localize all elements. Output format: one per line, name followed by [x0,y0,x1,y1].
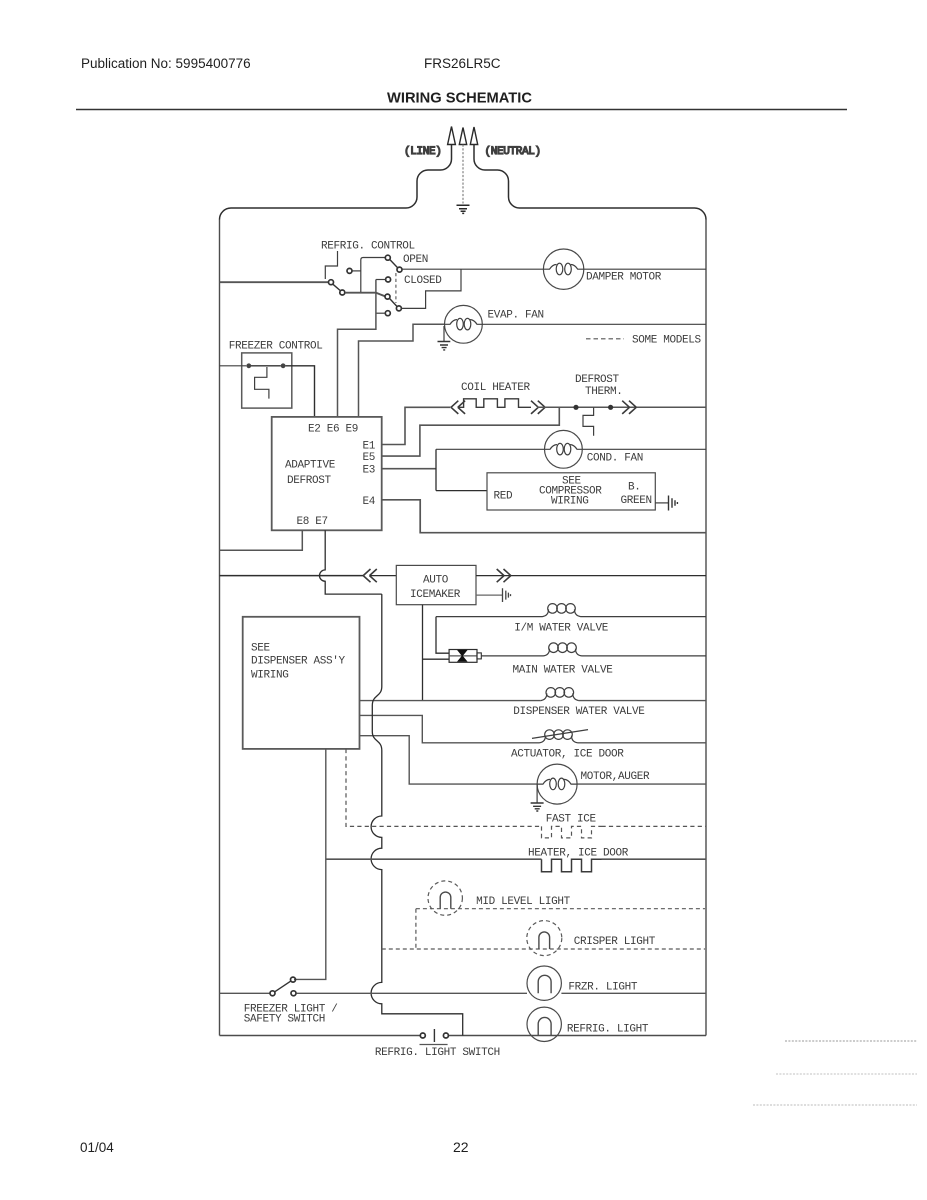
diode elements [458,650,467,661]
svg-text:REFRIG. LIGHT SWITCH: REFRIG. LIGHT SWITCH [375,1047,500,1059]
svg-text:Publication No: 5995400776: Publication No: 5995400776 [81,56,251,71]
connector chevrons left of coil heater [451,401,465,414]
svg-text:THERM.: THERM. [585,386,623,398]
defrost thermostat contact right [608,405,613,410]
safety switch upper contact [291,977,296,982]
wire dispenser box lamp feed down [294,749,326,980]
wire cond fan line [436,448,706,450]
svg-text:(NEUTRAL): (NEUTRAL) [485,146,541,158]
damper motor windings [543,265,584,270]
legend dashed sample SOME MODELS [586,338,624,340]
wire icemaker box down to water valve feed [422,605,424,701]
svg-text:(LINE): (LINE) [404,146,442,158]
wire main water valve line [481,655,706,657]
wire ground prong lead [462,145,464,204]
contact C [347,268,352,273]
frzr light filament [538,975,551,993]
svg-text:SEE: SEE [251,642,271,654]
evap fan motor circle [445,305,483,343]
wire E4 to right rail [382,500,706,533]
heater ice door element [542,859,602,872]
bottom edge left of refrig light switch [220,1035,421,1037]
wire B to CLOSED contact G [345,293,385,297]
freezer control contact left [246,363,251,368]
refrig light switch plunger [433,1029,435,1042]
diode pack midline [449,655,477,657]
main water valve coil [544,649,582,656]
wire dispenser box fast ice dashed feed [346,749,542,827]
ground symbol at evap fan [438,342,451,350]
left rail of schematic box [219,220,221,1036]
svg-text:E4: E4 [363,496,376,508]
ground symbol at motor auger [531,803,544,811]
svg-text:DISPENSER ASS'Y: DISPENSER ASS'Y [251,656,346,668]
refrig light switch base [420,1044,448,1046]
svg-text:FREEZER CONTROL: FREEZER CONTROL [229,341,323,353]
svg-text:REFRIG. LIGHT: REFRIG. LIGHT [567,1024,649,1036]
svg-text:01/04: 01/04 [80,1140,114,1155]
crisper light filament [539,932,550,949]
wire coil heater to defrost thermostat [537,406,706,408]
svg-text:FAST ICE: FAST ICE [546,814,597,826]
wire compressor GREEN to ground [655,502,668,504]
wire feed from left rail to refrig control common [220,281,329,283]
svg-text:E8 E7: E8 E7 [297,516,328,528]
svg-text:ICEMAKER: ICEMAKER [410,589,461,601]
wire icemaker box to right rail [476,575,706,577]
svg-text:SOME MODELS: SOME MODELS [632,335,702,347]
adaptive defrost control box [272,417,382,530]
svg-text:COIL HEATER: COIL HEATER [461,382,531,394]
svg-text:MAIN WATER VALVE: MAIN WATER VALVE [513,664,614,676]
refrid light filament [538,1017,551,1035]
right rail of schematic box [705,220,707,1036]
refrid light circle [527,1007,561,1041]
defrost thermostat contact left [573,405,578,410]
dispenser water valve coil [541,693,579,700]
frzr light circle [527,966,561,1000]
svg-text:MOTOR,AUGER: MOTOR,AUGER [581,771,651,783]
I/M water valve coil [543,609,581,616]
svg-text:HEATER, ICE DOOR: HEATER, ICE DOOR [528,848,629,860]
svg-text:DEFROST: DEFROST [575,374,620,386]
wire heater ice door line [326,858,706,860]
connector chevrons right of coil heater [531,401,545,414]
motor auger circle [537,764,577,804]
mid level light filament [440,892,451,909]
freezer control sensing zigzag [255,367,269,399]
wire frzr light line from left rail [220,992,271,994]
contact D OPEN [385,255,390,260]
svg-text:E1: E1 [363,441,376,453]
svg-text:FRS26LR5C: FRS26LR5C [424,56,501,71]
header rule [76,109,847,111]
dispenser assy note box [243,617,360,749]
svg-text:COND. FAN: COND. FAN [587,453,643,465]
svg-text:RED: RED [494,491,514,503]
svg-text:OPEN: OPEN [403,254,428,266]
svg-text:WIRING: WIRING [551,496,589,508]
connector chevrons right of icemaker box [497,569,511,582]
wire bus vertical to OPEN branch [361,258,386,293]
actuator ice door coil [540,736,578,743]
switch blade D to E [390,260,398,268]
freezer control blade [251,365,281,367]
wire F-H node down to E6 terminal [338,280,376,417]
svg-text:SAFETY SWITCH: SAFETY SWITCH [244,1014,325,1026]
svg-text:WIRING SCHEMATIC: WIRING SCHEMATIC [387,91,532,107]
wire left rail to freezer control [220,365,247,367]
svg-text:E5: E5 [363,452,376,464]
wire compressor RED feed [436,490,487,492]
wire I/M water valve line [436,616,706,618]
wire E3 to junction [382,468,436,470]
svg-text:CRISPER LIGHT: CRISPER LIGHT [574,936,656,948]
freezer control contact right [281,363,286,368]
svg-text:DEFROST: DEFROST [287,475,332,487]
contact A refrig control common [329,280,334,285]
svg-text:B.: B. [628,482,641,494]
safety switch line contact [291,991,296,996]
wire fast ice dashed to right rail [602,825,707,827]
wire LINE prong to left rail [220,145,452,220]
wire actuator feed from dispenser box [360,715,707,742]
wire evap fan line from E9 [359,324,445,417]
diode pack body [449,650,477,663]
contact B [340,290,345,295]
auto icemaker box [396,565,476,604]
fast ice heater element dashed [542,826,602,838]
svg-text:EVAP. FAN: EVAP. FAN [488,310,544,322]
wire F to H loop [376,279,386,281]
evap fan windings [445,320,483,325]
ground symbol at compressor sideways [669,496,678,511]
wire freezer control to E2 terminal [286,366,315,417]
switch blade A to B [333,284,340,290]
scan artifact line 2 [776,1073,917,1075]
svg-text:DISPENSER WATER VALVE: DISPENSER WATER VALVE [513,706,645,718]
wire E7 run down through valve lines with hops [371,594,463,1035]
ground lead at motor auger [536,784,538,802]
wire frzr light line to lamp and rail [297,992,707,994]
wire E1 to coil heater [382,407,451,444]
actuator stroke line [532,730,588,739]
wire icemaker line from left rail [220,575,364,577]
wire E7 down with hop over icemaker line [319,530,381,594]
plug prong ground arrow [459,128,466,145]
wire I staircase up to damper line [402,269,462,308]
svg-text:FRZR. LIGHT: FRZR. LIGHT [568,982,638,994]
svg-text:GREEN: GREEN [621,495,652,507]
contact F CLOSED [386,277,391,282]
wire motor auger feed from dispenser box [360,736,707,784]
contact E [397,267,402,272]
cond fan windings [545,445,583,450]
coil heater element [458,399,531,408]
contact G [385,294,390,299]
svg-text:ACTUATOR, ICE DOOR: ACTUATOR, ICE DOOR [511,748,624,760]
motor auger windings [537,779,577,784]
safety switch common contact [270,991,275,996]
refrig control sensing bracket [325,251,337,279]
switch blade G to I [390,299,397,307]
damper motor M1 circle [543,249,583,289]
contact C stub wire [352,270,361,272]
wire dispenser water valve line [360,700,707,702]
cond fan motor circle [545,430,583,468]
refrig light switch right contact [443,1033,448,1038]
svg-text:DAMPER MOTOR: DAMPER MOTOR [586,272,662,284]
svg-text:E2 E6 E9: E2 E6 E9 [308,423,358,435]
mechanical link dashed between poles [395,273,397,303]
svg-text:CLOSED: CLOSED [404,275,442,287]
svg-text:AUTO: AUTO [423,574,449,586]
crisper light circle dashed [527,921,562,956]
plug prong LINE arrow [448,127,456,145]
freezer control box [242,353,292,408]
wire H stub to F-H node [376,312,385,314]
wire diode lower feed [423,658,450,660]
ground symbol below plug [457,205,470,213]
scan artifact line 3 [753,1104,917,1106]
plug prong NEUTRAL arrow [470,127,477,145]
svg-text:E3: E3 [363,464,376,476]
contact I [396,306,401,311]
scan artifact line 1 [785,1040,917,1042]
wire evap fan to right rail [482,323,706,325]
safety switch blade [275,981,291,992]
wire crisper light dashed line [382,948,705,950]
wire mid level light dashed line [416,909,705,949]
wire chevrons to icemaker box [370,575,397,577]
svg-text:WIRING: WIRING [251,670,289,682]
wire E8 to left rail [220,530,303,550]
connector chevrons left of icemaker [363,569,377,582]
contact H [385,311,390,316]
refrig light switch left contact [420,1033,425,1038]
connector chevron right of defrost thermostat [622,401,636,414]
svg-text:MID LEVEL LIGHT: MID LEVEL LIGHT [476,896,571,908]
wire damper motor line [402,268,706,270]
wire NEUTRAL prong to right rail [474,145,706,220]
wire icemaker ground stub [476,594,502,596]
wire junction vertical cond fan to compressor feed [435,449,437,490]
svg-text:REFRIG. CONTROL: REFRIG. CONTROL [321,241,415,253]
defrost thermostat sensing bracket [583,407,594,436]
mid level light circle dashed [428,881,462,915]
svg-text:I/M WATER VALVE: I/M WATER VALVE [514,622,609,634]
compressor note box [487,473,655,510]
wire E5 to coil heater line [382,408,560,456]
svg-text:22: 22 [453,1139,469,1155]
wire I/M valve feed from diode [436,617,449,654]
svg-text:ADAPTIVE: ADAPTIVE [285,459,336,471]
diode pack terminal tab [477,653,481,659]
ground lead at evap fan [443,326,445,341]
bottom edge right of refrig light switch [448,1035,706,1037]
ground symbol at icemaker sideways [503,588,511,602]
